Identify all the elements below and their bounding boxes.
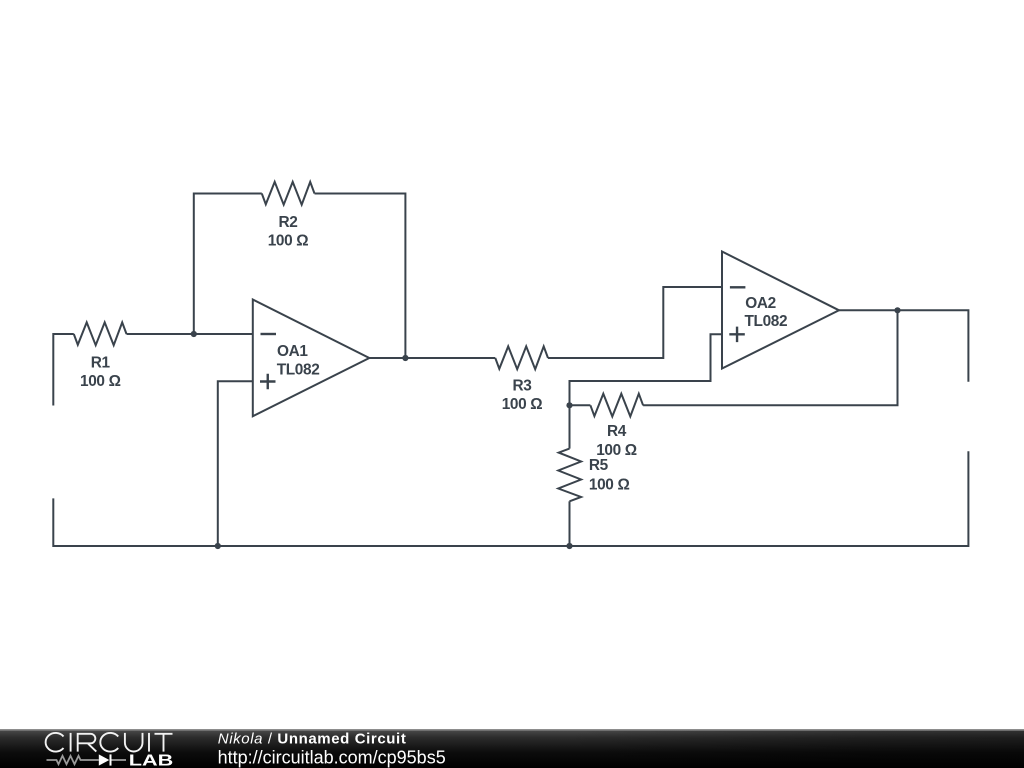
wire OA1 output to R3 xyxy=(369,357,495,359)
svg-text:100 Ω: 100 Ω xyxy=(268,232,309,249)
op-amp OA2 plus pin marker xyxy=(729,327,745,343)
op-amp OA1 xyxy=(253,300,369,417)
svg-text:100 Ω: 100 Ω xyxy=(589,477,630,494)
op-amp OA2 minus pin marker xyxy=(730,286,746,288)
footer bar top edge line xyxy=(0,729,1024,730)
wire R5 bottom lead xyxy=(569,501,571,546)
svg-text:LAB: LAB xyxy=(129,752,174,768)
svg-text:OA1: OA1 xyxy=(277,343,308,360)
svg-text:100 Ω: 100 Ω xyxy=(502,396,543,413)
svg-text:Nikola / Unnamed Circuit: Nikola / Unnamed Circuit xyxy=(218,730,407,747)
wire OA2 output right branch xyxy=(839,310,968,382)
resistor R5 xyxy=(558,449,581,502)
svg-text:R3: R3 xyxy=(513,377,532,394)
op-amp OA1 minus pin marker xyxy=(261,333,277,335)
wire R1 to OA1 inverting input xyxy=(127,333,253,335)
op-amp OA2 xyxy=(722,252,839,369)
resistor R3 xyxy=(495,346,548,369)
wire R2 feedback loop left and top xyxy=(194,194,262,335)
wire R3 to OA2 inverting input xyxy=(548,287,722,358)
wire R2 to OA1 output xyxy=(315,194,406,359)
node junction R1/R2/OA1 input xyxy=(191,331,197,337)
svg-text:http://circuitlab.com/cp95bs5: http://circuitlab.com/cp95bs5 xyxy=(218,748,446,768)
svg-text:100 Ω: 100 Ω xyxy=(80,373,121,390)
resistor R2 xyxy=(262,182,315,205)
resistor R4 xyxy=(590,394,643,417)
wire OA1 non-inverting input xyxy=(218,381,253,546)
svg-text:R5: R5 xyxy=(589,457,609,474)
logo wordmark CIRCUIT xyxy=(46,733,173,752)
node R5 to ground rail xyxy=(566,543,572,549)
logo diode symbol xyxy=(99,754,112,765)
wire R4 to OA2 output node xyxy=(643,310,897,405)
wire OA2 non-inverting input xyxy=(570,334,723,405)
logo resistor-diode glyph xyxy=(47,756,127,764)
svg-text:R4: R4 xyxy=(607,423,627,440)
svg-text:TL082: TL082 xyxy=(745,313,788,330)
op-amp OA1 plus pin marker xyxy=(260,374,276,390)
node OA2 output xyxy=(894,307,900,313)
svg-text:R1: R1 xyxy=(91,355,111,372)
wire ground rail bottom xyxy=(53,451,968,546)
svg-text:OA2: OA2 xyxy=(745,295,776,312)
resistor R1 xyxy=(74,322,127,345)
wire left input branch xyxy=(53,334,74,406)
svg-text:R2: R2 xyxy=(279,214,298,231)
node R4/R5/OA2 plus xyxy=(566,402,572,408)
node OA1 plus to ground rail xyxy=(215,543,221,549)
node OA1 output xyxy=(402,355,408,361)
wire R4 left lead from node xyxy=(570,404,591,406)
svg-text:TL082: TL082 xyxy=(277,361,320,378)
wire R5 top lead xyxy=(569,405,571,448)
